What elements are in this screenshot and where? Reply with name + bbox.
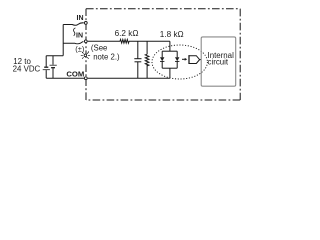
PLC unit boundary dash-dot box — [86, 9, 240, 100]
photocoupler LED bridge top — [162, 50, 177, 52]
wire: output stub to internal circuit — [200, 59, 202, 61]
wire: riser to IN wires — [62, 25, 64, 56]
svg-text:note 2.): note 2.) — [93, 52, 120, 61]
note pointer dashes — [87, 51, 89, 53]
battery cell 1 (left, minus up) — [45, 56, 47, 67]
svg-text:IN: IN — [77, 15, 84, 22]
svg-text:IN: IN — [76, 32, 83, 39]
resistor R2 1.8 kOhm (vertical zigzag) — [145, 54, 149, 66]
photocoupler LED bridge bottom — [162, 67, 177, 69]
wire: bottom return to COM — [46, 77, 84, 79]
wire: capacitor branch bottom — [137, 62, 139, 78]
squiggle mark left of IN2 label — [73, 28, 75, 36]
diode D1 triangle — [160, 57, 164, 61]
capacitor C plates — [134, 58, 141, 60]
diode D2 triangle — [175, 57, 179, 61]
wire: coupler to bottom rail — [169, 68, 171, 78]
wire: input rail from IN2 terminal — [88, 40, 120, 42]
svg-text:6.2 kΩ: 6.2 kΩ — [115, 29, 139, 38]
photocoupler dashed ellipse — [152, 45, 207, 79]
svg-text:1.8 kΩ: 1.8 kΩ — [160, 30, 184, 39]
LED D2 branch — [176, 51, 178, 57]
phototransistor body — [189, 56, 200, 64]
svg-text:(±): (±) — [75, 45, 85, 54]
terminal IN2 — [84, 40, 87, 43]
terminal COM — [84, 77, 87, 80]
wire: battery top connector — [46, 55, 63, 57]
battery cell 2 (right, plus up) — [52, 56, 54, 65]
wire: feed down into coupler — [169, 41, 171, 51]
wire: R2 branch bottom — [146, 64, 148, 78]
svg-text:24 VDC: 24 VDC — [13, 65, 41, 74]
wire: IN2 feed with hook into terminal — [63, 42, 83, 44]
light arrow head — [185, 58, 188, 61]
resistor R1 6.2 kOhm (zigzag) — [120, 40, 129, 44]
wire: IN1 feed with hook into terminal — [63, 23, 84, 25]
svg-text:COM: COM — [66, 69, 84, 78]
wire: internal ground rail from COM to coupler — [88, 77, 170, 79]
wire: capacitor branch top — [137, 41, 139, 58]
note terminal with radiating ticks — [81, 52, 90, 59]
terminal IN1 — [84, 22, 87, 25]
wire: R2 branch top — [146, 41, 148, 54]
svg-text:circuit: circuit — [208, 58, 229, 67]
svg-text:(See: (See — [91, 43, 107, 52]
light arrow shaft — [182, 58, 185, 60]
internal circuit box — [201, 37, 236, 86]
LED D1 branch — [161, 51, 163, 57]
wire: rail after R1 — [129, 40, 170, 42]
